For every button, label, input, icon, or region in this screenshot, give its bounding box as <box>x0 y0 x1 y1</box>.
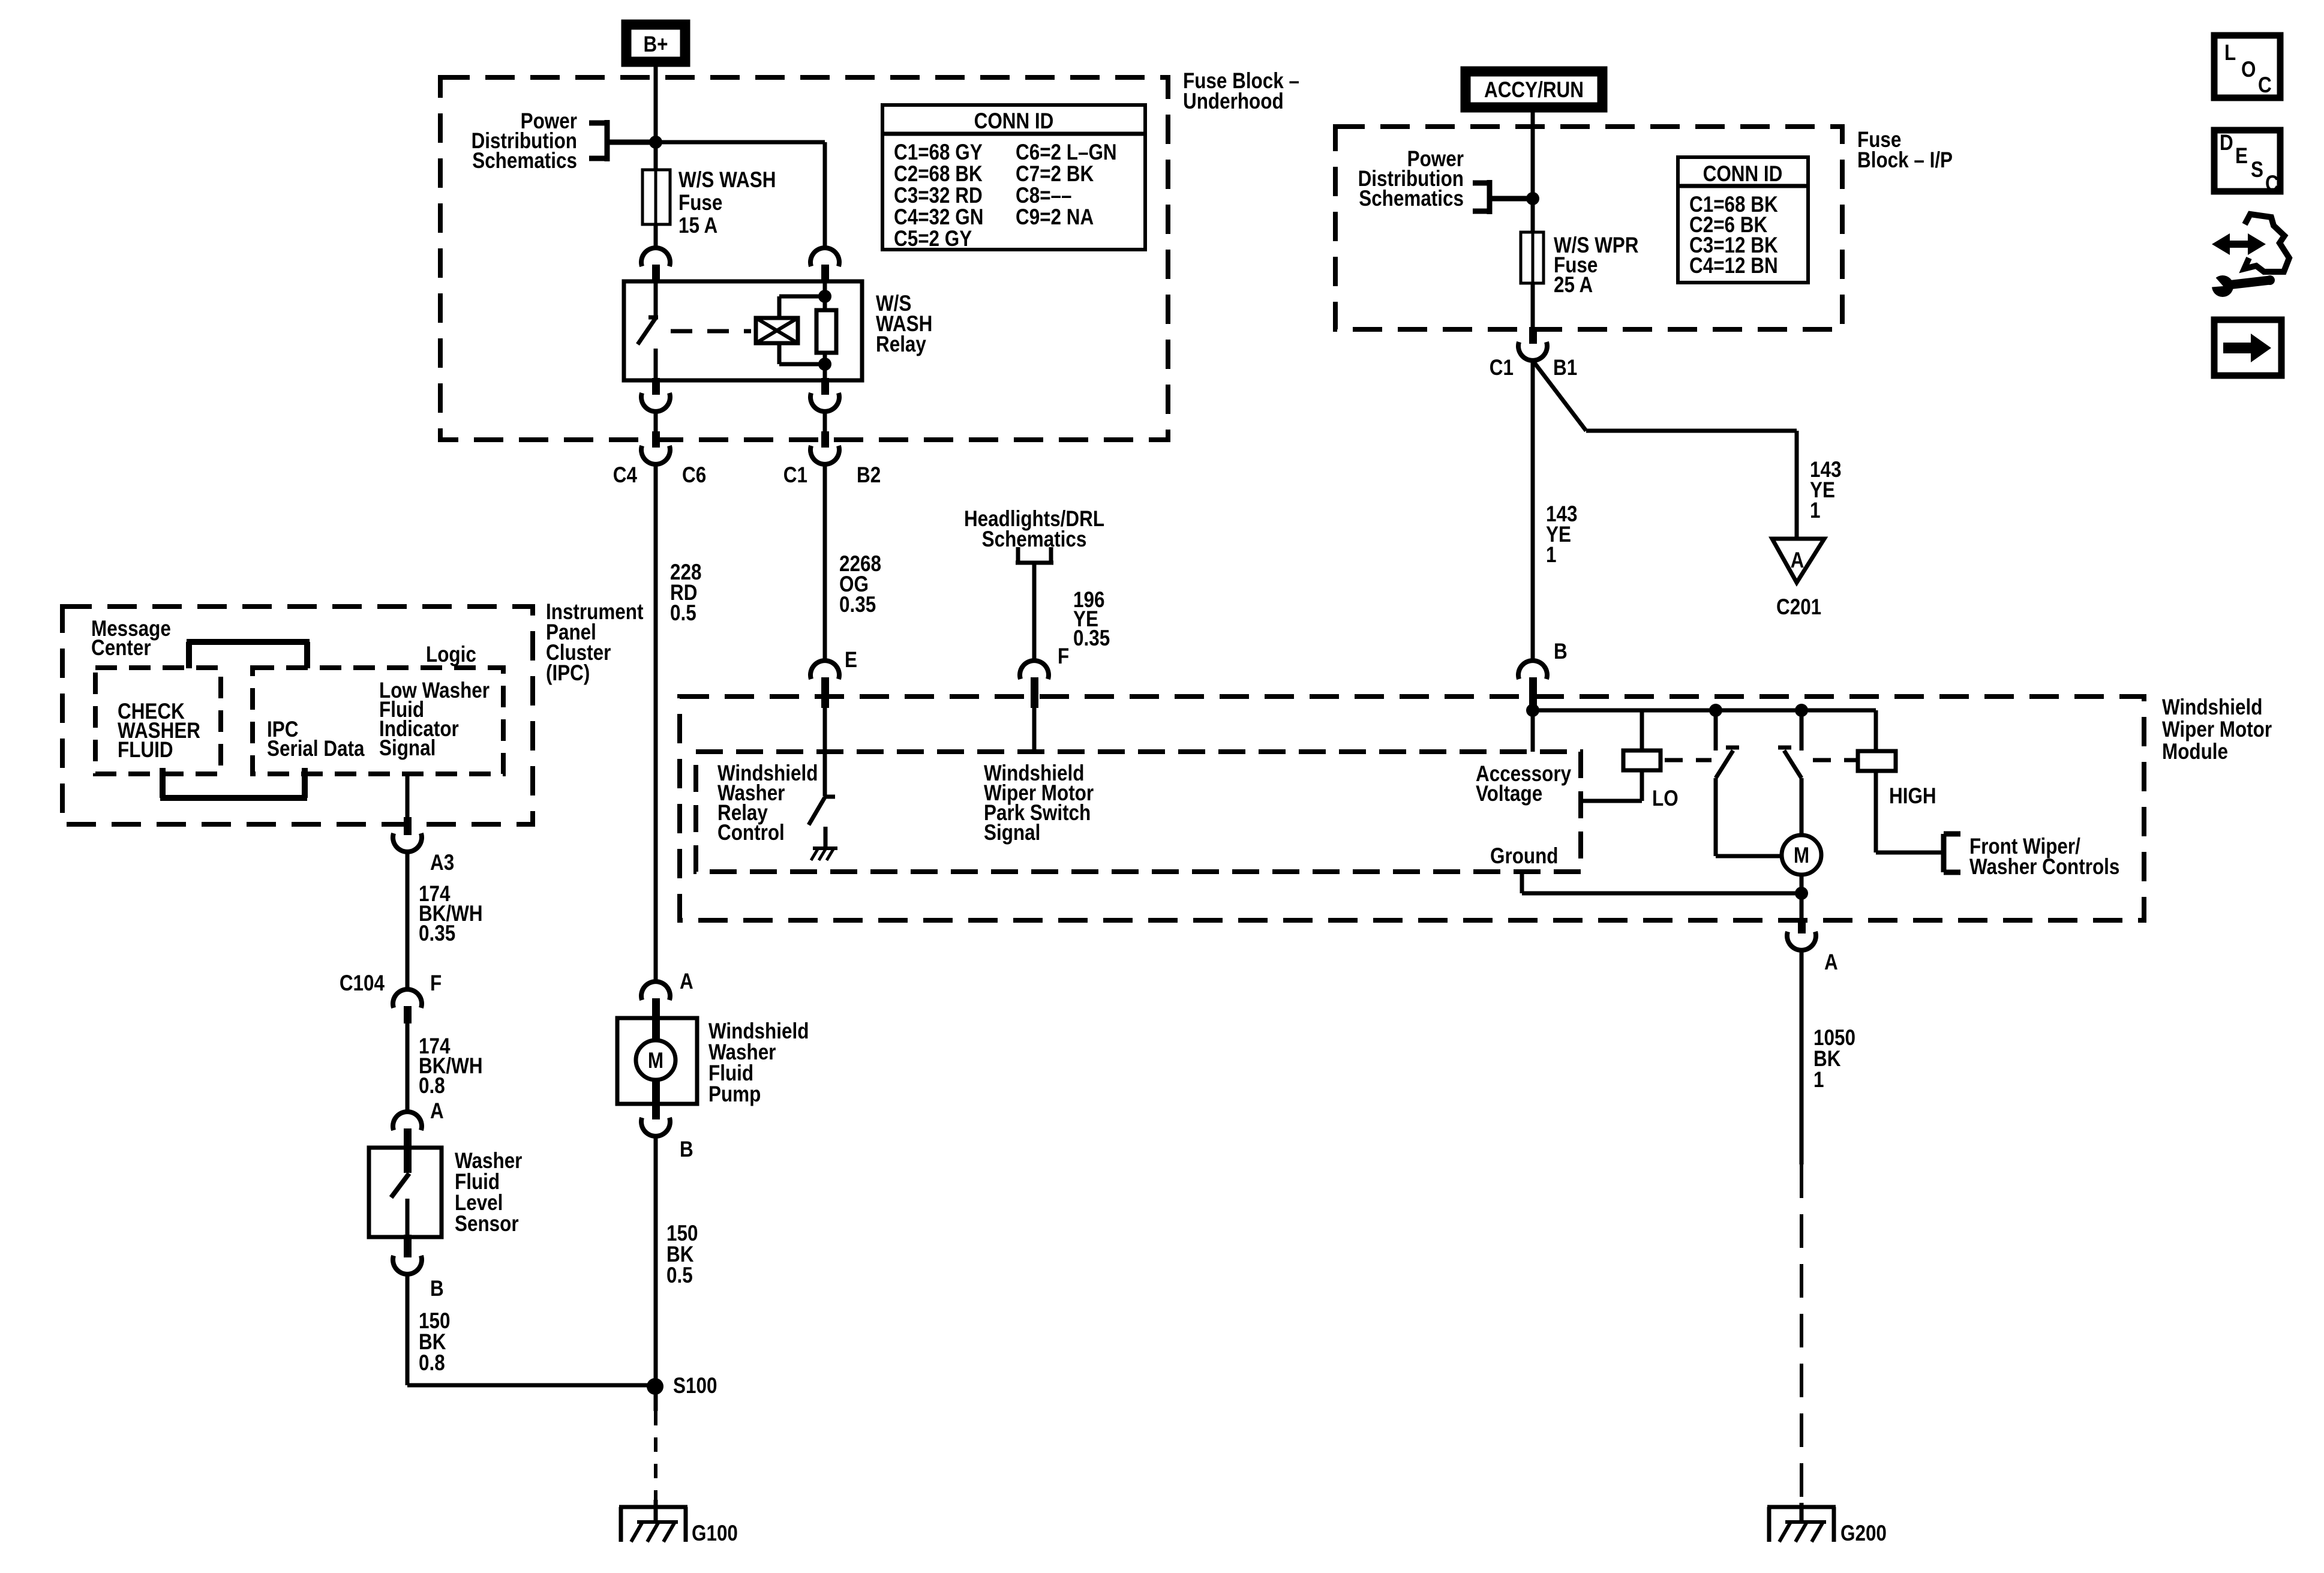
label C1 (I/P) <box>1490 356 1514 380</box>
Windshield Wiper Motor Module dashed box <box>680 697 2144 920</box>
svg-text:G200: G200 <box>1840 1521 1887 1546</box>
label Washer Fluid Level Sensor <box>455 1149 522 1236</box>
svg-text:Signal: Signal <box>984 821 1040 845</box>
svg-text:ACCY/RUN: ACCY/RUN <box>1484 78 1584 103</box>
label S100 <box>673 1374 717 1398</box>
Message Center dashed box <box>95 668 221 774</box>
label Windshield Washer Relay Control <box>717 761 818 845</box>
wiper switch 1 <box>1716 710 1783 856</box>
svg-text:Center: Center <box>91 636 151 661</box>
label A (pump) <box>680 969 693 994</box>
icon wrench arrows <box>2208 214 2289 297</box>
svg-text:E: E <box>2235 144 2248 169</box>
ground G200 symbol <box>1767 1507 1836 1542</box>
label A (sensor) <box>430 1099 444 1124</box>
svg-text:C201: C201 <box>1776 595 1821 620</box>
washer relay control switch <box>809 708 835 848</box>
label Front Wiper / Washer Controls <box>1969 834 2119 879</box>
label IPC Serial Data <box>267 718 365 761</box>
svg-text:CONN ID: CONN ID <box>974 109 1054 134</box>
label 150 BK 0.5 <box>666 1221 698 1288</box>
svg-text:C5=2 GY: C5=2 GY <box>894 227 972 251</box>
svg-text:0.5: 0.5 <box>670 601 696 626</box>
svg-text:Schematics: Schematics <box>982 527 1087 552</box>
junction dot ACCY wire <box>1526 192 1539 205</box>
label E <box>845 648 857 673</box>
bracket headlights reference <box>1016 547 1053 563</box>
label G200 <box>1840 1521 1887 1546</box>
label Ground <box>1490 844 1559 869</box>
junction dot coil bottom <box>818 358 831 371</box>
connector A3 <box>393 817 422 852</box>
icon arrow box <box>2214 320 2281 376</box>
connector B into module <box>1518 661 1547 710</box>
LO relay coil <box>1582 710 1661 801</box>
svg-text:D: D <box>2220 131 2233 155</box>
wire through resistor <box>823 281 827 380</box>
label Power Distribution Schematics (I/P) <box>1358 147 1464 211</box>
wire pump to S100 <box>654 1136 658 1386</box>
label C104 <box>340 971 385 996</box>
svg-text:M: M <box>648 1049 663 1073</box>
icon DESC box <box>2214 130 2280 196</box>
connector pair below relay left <box>641 378 670 464</box>
svg-text:C6: C6 <box>682 463 706 488</box>
connector pair below relay right <box>810 378 839 464</box>
svg-text:C1: C1 <box>1490 356 1514 380</box>
svg-text:A3: A3 <box>430 851 454 875</box>
relay coil top wire <box>779 296 825 318</box>
wire A to G200 <box>1800 950 1804 1522</box>
svg-text:B: B <box>680 1137 693 1162</box>
label A (module) <box>1824 950 1838 975</box>
connector B pump <box>641 1101 670 1136</box>
label Windshield Washer Fluid Pump <box>708 1019 809 1107</box>
svg-text:C8=––: C8=–– <box>1016 184 1072 208</box>
label 143 YE 1 (left) <box>1546 502 1577 568</box>
wire headlights to F <box>1032 565 1037 661</box>
accessory voltage wire <box>1531 710 1535 752</box>
label Message Center <box>91 617 171 661</box>
conn id table I/P <box>1678 157 1808 283</box>
svg-text:W/S WASH: W/S WASH <box>678 168 776 193</box>
svg-text:B+: B+ <box>643 32 668 57</box>
svg-text:C1: C1 <box>783 463 807 488</box>
wire A3 to C104 <box>406 852 410 989</box>
wire C104 to sensor A <box>406 1023 410 1112</box>
junction node power dist / B+ wire <box>649 136 662 149</box>
svg-text:B: B <box>430 1277 444 1301</box>
svg-text:LO: LO <box>1652 786 1679 811</box>
svg-text:1: 1 <box>1813 1068 1824 1092</box>
svg-text:C104: C104 <box>340 971 385 996</box>
relay resistor <box>816 310 836 353</box>
label Accessory Voltage <box>1476 762 1571 806</box>
svg-text:25 A: 25 A <box>1554 273 1593 298</box>
wire motor out of module <box>1800 893 1804 920</box>
svg-text:B: B <box>1554 640 1568 664</box>
svg-text:Sensor: Sensor <box>455 1212 519 1236</box>
connector F into module <box>1020 661 1049 708</box>
label Logic <box>426 643 476 667</box>
connector arch relay top right <box>810 248 839 282</box>
label LO <box>1652 786 1679 811</box>
svg-text:C: C <box>2265 172 2279 196</box>
svg-text:F: F <box>430 971 442 996</box>
svg-text:C7=2 BK: C7=2 BK <box>1016 162 1094 187</box>
label Fuse Block I/P <box>1857 128 1953 173</box>
wire fuse to relay connector <box>654 224 658 248</box>
svg-text:0.35: 0.35 <box>419 921 455 946</box>
label C6 <box>682 463 706 488</box>
junction dot coil top <box>818 290 831 303</box>
ground G100 symbol <box>619 1507 687 1542</box>
label 196 YE 0.35 <box>1073 588 1110 651</box>
label W/S WPR Fuse 25 A <box>1554 233 1639 298</box>
svg-text:Underhood: Underhood <box>1183 89 1284 114</box>
label C1 (underhood) <box>783 463 807 488</box>
label 150 BK 0.8 <box>419 1309 450 1376</box>
sensor switch <box>391 1149 412 1237</box>
label 174 BK/WH 0.35 <box>419 882 483 946</box>
svg-text:15 A: 15 A <box>678 214 717 238</box>
wiper switch 2 <box>1778 710 1801 835</box>
label Instrument Panel Cluster (IPC) <box>546 600 644 686</box>
label Headlights/DRL Schematics <box>964 507 1104 552</box>
wiper motor M <box>1782 835 1821 875</box>
svg-text:Washer Controls: Washer Controls <box>1969 855 2119 879</box>
svg-text:C1=68 GY: C1=68 GY <box>894 140 983 165</box>
svg-text:0.35: 0.35 <box>839 593 876 617</box>
label C4 <box>613 463 637 488</box>
label 1050 BK 1 <box>1813 1026 1855 1092</box>
svg-text:C4=12 BN: C4=12 BN <box>1689 254 1778 278</box>
bracket power distribution (I/P) <box>1473 180 1533 214</box>
label Fuse Block Underhood <box>1183 69 1299 114</box>
svg-text:Pump: Pump <box>708 1082 761 1107</box>
wire B2 down to module E <box>823 464 827 661</box>
module inner dashed box <box>696 752 1581 872</box>
wire S100 to G100 <box>654 1386 658 1522</box>
wire B+ to fuse <box>654 67 658 170</box>
svg-text:1: 1 <box>1810 499 1820 523</box>
connector B sensor <box>393 1235 422 1274</box>
svg-text:F: F <box>1058 644 1069 669</box>
wire fuse to C1 connector <box>1531 283 1535 329</box>
svg-text:Ground: Ground <box>1490 844 1559 869</box>
label F <box>1058 644 1069 669</box>
relay W/S WASH box <box>624 281 862 380</box>
wire junction to relay right branch <box>656 142 825 248</box>
svg-text:G100: G100 <box>692 1521 738 1546</box>
HIGH actuation dashes <box>1813 758 1857 763</box>
label HIGH <box>1889 784 1936 809</box>
label Low Washer Fluid Indicator Signal <box>379 679 490 761</box>
svg-text:A: A <box>430 1099 444 1124</box>
serial data link top bracket <box>187 642 310 668</box>
connector A module out <box>1787 918 1816 950</box>
svg-text:E: E <box>845 648 857 673</box>
wire diagonal to C201 branch <box>1533 361 1797 539</box>
windshield washer fluid pump box <box>617 1018 697 1104</box>
label Windshield Wiper Motor Park Switch Signal <box>984 761 1094 845</box>
connector C201 triangle <box>1772 539 1824 583</box>
svg-text:0.35: 0.35 <box>1073 626 1110 651</box>
svg-text:C4: C4 <box>613 463 637 488</box>
relay actuation dashes <box>671 329 751 334</box>
LO actuation dashes <box>1665 758 1712 763</box>
svg-text:A: A <box>1791 548 1804 573</box>
label 2268 OG 0.35 <box>839 552 881 617</box>
label 228 RD 0.5 <box>670 560 701 626</box>
svg-text:Fuse: Fuse <box>678 191 722 215</box>
svg-text:Schematics: Schematics <box>472 149 577 173</box>
label F (C104) <box>430 971 442 996</box>
label W/S WASH Fuse 15 A <box>678 168 776 238</box>
HIGH relay coil <box>1858 710 1944 852</box>
svg-text:(IPC): (IPC) <box>546 661 590 686</box>
bracket power distribution (underhood) <box>589 120 656 161</box>
svg-text:B2: B2 <box>857 463 881 488</box>
svg-text:S100: S100 <box>673 1374 717 1398</box>
label 174 BK/WH 0.8 <box>419 1034 483 1098</box>
svg-text:O: O <box>2241 58 2256 82</box>
svg-text:C4=32 GN: C4=32 GN <box>894 205 983 230</box>
Logic dashed box <box>253 668 503 774</box>
pump motor M <box>636 1020 675 1104</box>
wire sensor B to S100 <box>406 1274 410 1385</box>
relay coil bottom wire <box>779 343 825 364</box>
svg-text:Module: Module <box>2162 740 2228 764</box>
svg-text:A: A <box>680 969 693 994</box>
svg-text:Control: Control <box>717 821 785 845</box>
label B2 <box>857 463 881 488</box>
svg-text:1: 1 <box>1546 543 1556 568</box>
wire indicator signal to A3 <box>406 774 410 817</box>
svg-text:C6=2 L–GN: C6=2 L–GN <box>1016 140 1117 165</box>
svg-text:Logic: Logic <box>426 643 476 667</box>
wire C6 down to pump <box>654 464 658 981</box>
label CHECK WASHER FLUID <box>118 700 200 763</box>
Fuse Block Underhood dashed box <box>440 77 1168 440</box>
fuse W/S WASH 15A <box>642 170 670 224</box>
svg-text:FLUID: FLUID <box>118 738 173 763</box>
relay coil box with X <box>756 318 798 343</box>
label 143 YE 1 (right) <box>1810 458 1841 523</box>
svg-text:A: A <box>1824 950 1838 975</box>
Fuse Block I/P dashed box <box>1335 127 1842 329</box>
connector A pump <box>641 981 670 1020</box>
conn id table underhood <box>882 105 1145 251</box>
label B (sensor) <box>430 1277 444 1301</box>
label Windshield Wiper Motor Module <box>2162 695 2272 764</box>
svg-text:Block – I/P: Block – I/P <box>1857 148 1953 173</box>
svg-text:Schematics: Schematics <box>1359 187 1464 211</box>
svg-text:Voltage: Voltage <box>1476 782 1542 806</box>
power symbol B+ box <box>626 25 685 62</box>
svg-text:Relay: Relay <box>876 332 926 357</box>
svg-text:Windshield: Windshield <box>2162 695 2262 720</box>
label G100 <box>692 1521 738 1546</box>
wire sensor branch horizontal to S100 <box>407 1383 655 1388</box>
label Power Distribution Schematics (underhood) <box>472 109 577 173</box>
svg-text:Wiper Motor: Wiper Motor <box>2162 718 2272 742</box>
svg-text:L: L <box>2224 41 2236 65</box>
svg-text:M: M <box>1794 843 1809 868</box>
fuse W/S WPR 25A <box>1521 232 1544 283</box>
connector E into module <box>810 661 839 708</box>
svg-text:C2=68 BK: C2=68 BK <box>894 162 983 187</box>
svg-text:0.5: 0.5 <box>666 1263 693 1288</box>
svg-text:C9=2 NA: C9=2 NA <box>1016 205 1094 230</box>
label A3 <box>430 851 454 875</box>
serial data link bottom bracket <box>160 768 307 798</box>
park switch wire F <box>1032 708 1037 752</box>
svg-text:B1: B1 <box>1553 356 1577 380</box>
label B (pump) <box>680 1137 693 1162</box>
washer fluid level sensor box <box>369 1148 442 1237</box>
connector C1/B1 <box>1518 327 1547 361</box>
svg-text:Signal: Signal <box>379 736 436 761</box>
svg-text:HIGH: HIGH <box>1889 784 1936 809</box>
wire ACCY to fuse <box>1531 112 1535 232</box>
connector arch relay top left <box>641 248 670 282</box>
connector C104 <box>393 989 422 1023</box>
wire C1 to module B <box>1531 361 1535 661</box>
Instrument Panel Cluster dashed box <box>62 607 533 824</box>
icon LOC box <box>2214 35 2280 98</box>
svg-text:C: C <box>2258 73 2272 98</box>
label C201 <box>1776 595 1821 620</box>
power symbol ACCY/RUN box <box>1466 71 1602 107</box>
splice S100 <box>647 1378 663 1395</box>
svg-text:CONN ID: CONN ID <box>1703 162 1783 187</box>
svg-text:0.8: 0.8 <box>419 1074 445 1098</box>
svg-text:C3=32 RD: C3=32 RD <box>894 184 983 208</box>
label W/S WASH Relay <box>876 292 932 357</box>
relay switch <box>638 281 658 380</box>
relay control ground symbol <box>811 848 837 860</box>
connector A sensor <box>393 1112 422 1149</box>
module supply bus <box>1526 704 1876 717</box>
label B (module) <box>1554 640 1568 664</box>
junction dot motor ground <box>1795 887 1808 900</box>
bracket front wiper controls <box>1944 834 1960 872</box>
svg-text:0.8: 0.8 <box>419 1351 445 1376</box>
svg-text:Serial Data: Serial Data <box>267 737 365 761</box>
svg-text:S: S <box>2251 158 2263 182</box>
module ground bus <box>1522 872 1801 893</box>
label B1 <box>1553 356 1577 380</box>
wire motor to ground bus <box>1800 875 1804 893</box>
